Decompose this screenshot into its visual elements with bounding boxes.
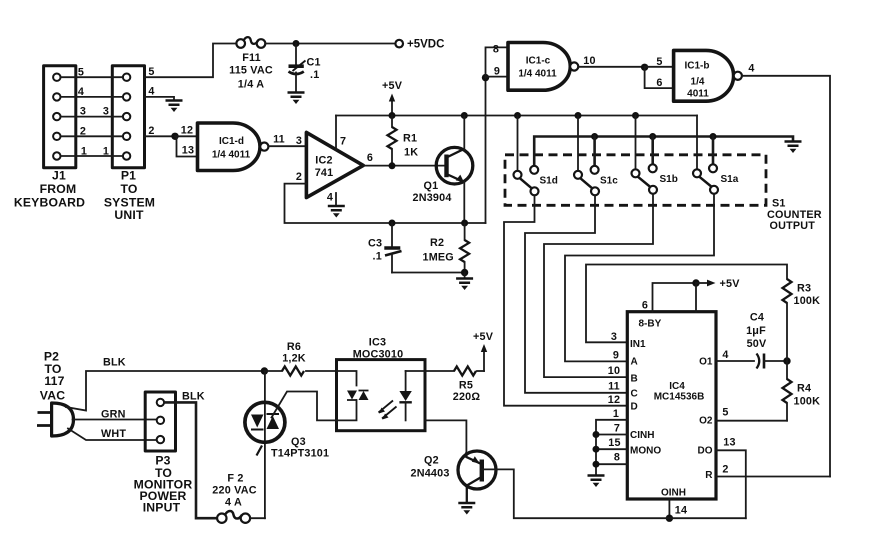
svg-text:S1c: S1c <box>600 176 618 187</box>
wire IC3 to Q2 <box>425 420 466 452</box>
wire J1-P1 row 1 <box>61 146 122 158</box>
wire P1 pin5 to fuse F11 <box>145 44 237 79</box>
wire oscillator node to IC1-c inputs <box>485 78 487 223</box>
connector P1 <box>112 66 144 168</box>
svg-text:13: 13 <box>182 145 194 157</box>
wire P1 pin2 to IC1-d <box>145 125 174 137</box>
fuse F11 <box>229 37 273 90</box>
ground under R2 <box>464 273 466 279</box>
svg-text:IC1-b: IC1-b <box>685 61 710 72</box>
svg-text:KEYBOARD: KEYBOARD <box>14 195 85 209</box>
node C4 R3 R4 <box>783 357 790 364</box>
svg-text:C1: C1 <box>307 57 321 69</box>
label J1 FROM KEYBOARD <box>14 169 85 210</box>
node rail2 S1b <box>649 133 656 140</box>
wire +5V rail <box>336 115 697 117</box>
node IC1-b inputs <box>641 64 648 71</box>
+5V arrow top <box>382 80 403 116</box>
ground under Q2 <box>458 503 475 515</box>
ground IC4 control pins <box>588 476 605 488</box>
svg-text:R2: R2 <box>430 237 444 249</box>
node rail2 S1c <box>591 133 598 140</box>
+5V arrow IC4 <box>696 278 740 290</box>
svg-text:4: 4 <box>748 63 754 75</box>
terminal +5VDC <box>395 39 444 51</box>
svg-text:DO: DO <box>698 446 713 457</box>
svg-text:8: 8 <box>614 452 620 464</box>
wire op-amp pin 7 to +5V rail <box>336 116 346 151</box>
svg-text:1μF: 1μF <box>746 325 766 337</box>
node BLK R6 Q3 <box>261 367 268 374</box>
wire IC4 pin 4 O1 to C4 <box>716 349 754 361</box>
svg-text:IC3: IC3 <box>369 337 386 349</box>
svg-text:S1b: S1b <box>660 174 678 185</box>
svg-text:3: 3 <box>80 106 86 118</box>
svg-text:4011: 4011 <box>687 89 709 100</box>
svg-text:O1: O1 <box>699 357 713 368</box>
svg-text:VAC: VAC <box>40 389 65 403</box>
node rail R1 <box>389 112 396 119</box>
wire IC4 pin 14 OINH <box>669 499 687 518</box>
resistor R5 220 ohm <box>406 367 484 404</box>
svg-text:+5V: +5V <box>720 278 741 290</box>
node tie pin 15 <box>593 446 600 453</box>
svg-text:BLK: BLK <box>182 391 205 403</box>
wire J1-P1 row 2 <box>61 126 122 138</box>
wire Q3 main vertical <box>264 371 266 518</box>
svg-text:5: 5 <box>78 67 84 79</box>
capacitor C4 1uF 50V <box>746 312 787 369</box>
svg-text:P1: P1 <box>121 169 136 183</box>
svg-text:C4: C4 <box>750 312 764 324</box>
node IC1-c inputs <box>482 74 489 81</box>
svg-text:J1: J1 <box>52 169 66 183</box>
svg-text:50V: 50V <box>747 338 767 350</box>
svg-text:1: 1 <box>613 408 619 420</box>
svg-text:115 VAC: 115 VAC <box>229 65 273 77</box>
svg-text:WHT: WHT <box>101 428 126 440</box>
svg-text:.1: .1 <box>310 69 319 81</box>
svg-text:8: 8 <box>493 44 499 56</box>
svg-text:7: 7 <box>614 423 620 435</box>
label P2 TO 117 VAC <box>40 350 65 403</box>
svg-text:11: 11 <box>273 134 285 146</box>
node rail S1b <box>632 112 639 119</box>
ground op-amp pin 4 <box>328 206 345 218</box>
wire ground rail <box>534 137 793 166</box>
wire IC4 pin 6 to +5V <box>642 283 696 312</box>
svg-text:1K: 1K <box>404 147 418 159</box>
resistor R6 1,2K <box>264 341 336 376</box>
svg-text:117: 117 <box>44 374 64 388</box>
svg-text:2: 2 <box>80 126 86 138</box>
fuse F2 220VAC 4A <box>212 473 256 523</box>
wire rail1 to S1c contact <box>577 116 579 171</box>
svg-text:Q1: Q1 <box>424 180 439 192</box>
wire Q2 base to bottom rail <box>482 469 746 518</box>
svg-text:8-BY: 8-BY <box>639 319 662 330</box>
svg-text:15: 15 <box>608 437 620 449</box>
resistor R4 100K <box>783 361 821 421</box>
svg-text:A: A <box>631 357 638 368</box>
svg-text:IC4: IC4 <box>669 381 685 392</box>
wire IC1-d pin 13 <box>177 136 198 156</box>
wire IC1-d out to IC2 pin 3 <box>269 134 307 148</box>
capacitor C1 <box>289 44 321 92</box>
svg-text:9: 9 <box>494 66 500 78</box>
svg-text:2: 2 <box>296 171 302 183</box>
svg-text:220 VAC: 220 VAC <box>212 485 256 497</box>
triac Q3 T14PT3101 <box>245 402 329 459</box>
wire Q3 gate to IC3 <box>272 392 337 421</box>
wire S1d to IC4 pin 12 D <box>504 195 627 406</box>
wire J1-P1 row 3 <box>61 106 122 118</box>
wire feedback op-amp pin 2 <box>285 184 486 223</box>
svg-text:+5V: +5V <box>382 80 403 92</box>
wire IC4 pin 2 R <box>716 464 830 477</box>
ground at rail S1 <box>785 142 802 154</box>
svg-text:10: 10 <box>608 365 620 377</box>
svg-text:2: 2 <box>148 125 154 137</box>
svg-text:6: 6 <box>656 77 662 89</box>
svg-text:IN1: IN1 <box>630 339 646 350</box>
svg-text:R: R <box>705 470 713 481</box>
transistor Q2 2N4403 <box>411 451 497 502</box>
transistor Q1 2N3904 <box>413 147 473 204</box>
svg-text:GRN: GRN <box>101 409 126 421</box>
wire J1-P1 row 4 <box>61 86 122 98</box>
svg-text:MOC3010: MOC3010 <box>353 348 404 360</box>
svg-text:100K: 100K <box>794 295 821 307</box>
wire IC1-d pin 12 <box>175 125 198 137</box>
wire IC1-b output to IC4 pin R <box>742 63 830 477</box>
wire rail1 to S1d contact <box>517 116 519 171</box>
svg-text:3: 3 <box>296 135 302 147</box>
svg-text:7: 7 <box>340 136 346 148</box>
ground under C1 <box>288 93 305 105</box>
wire J1-P1 row 5 <box>61 67 122 79</box>
svg-text:1: 1 <box>103 146 109 158</box>
IC IC4 MC14536B <box>627 312 716 499</box>
wire rail2 to S1a contact <box>712 137 715 165</box>
node rail Q1 collector <box>461 112 468 119</box>
svg-text:Q3: Q3 <box>291 436 306 448</box>
svg-text:OINH: OINH <box>661 488 686 499</box>
wire IN1 to R3 top <box>586 265 787 344</box>
svg-text:IC2: IC2 <box>315 155 332 167</box>
switch S1a <box>693 164 739 194</box>
capacitor C3 .1 <box>368 223 402 273</box>
svg-text:+5VDC: +5VDC <box>407 39 444 51</box>
connector J1 <box>44 66 76 168</box>
op-amp IC2 741 <box>296 132 373 197</box>
svg-text:IC1-c: IC1-c <box>526 56 551 67</box>
wire S1c to IC4 pin 11 C <box>525 195 627 392</box>
svg-text:B: B <box>631 374 638 385</box>
svg-text:R6: R6 <box>287 341 301 353</box>
svg-text:2N3904: 2N3904 <box>413 192 452 204</box>
svg-text:1MEG: 1MEG <box>423 252 454 264</box>
svg-text:4 A: 4 A <box>225 497 242 509</box>
svg-text:14: 14 <box>675 505 687 517</box>
svg-text:4: 4 <box>148 86 154 98</box>
svg-text:IC1-d: IC1-d <box>219 136 244 147</box>
svg-text:BLK: BLK <box>103 357 126 369</box>
svg-text:12: 12 <box>181 125 193 137</box>
svg-text:220Ω: 220Ω <box>453 391 481 403</box>
wire +5V node to IC4 VDD <box>695 283 697 312</box>
svg-text:5: 5 <box>722 407 728 419</box>
node rail S1c <box>575 112 582 119</box>
svg-text:R4: R4 <box>797 383 811 395</box>
switch S1d <box>514 166 558 196</box>
wire IC1-b pin 5 <box>645 56 674 68</box>
wire rail1 to S1b contact <box>635 116 637 169</box>
wire op-amp pin 4 to ground <box>327 192 336 206</box>
wire IC4 pin 5 O2 to R4 <box>716 407 787 421</box>
wire IC1-c pin 9 <box>486 66 509 78</box>
svg-text:10: 10 <box>583 55 595 67</box>
wire GRN P2 to P3 <box>73 409 156 421</box>
svg-text:UNIT: UNIT <box>114 208 144 222</box>
svg-text:1: 1 <box>81 146 87 158</box>
svg-text:3: 3 <box>103 106 109 118</box>
svg-text:.1: .1 <box>373 251 382 263</box>
svg-text:T14PT3101: T14PT3101 <box>271 448 329 460</box>
svg-text:S1d: S1d <box>540 176 558 187</box>
node IC1-d inputs <box>171 133 178 140</box>
switch S1c <box>574 166 618 196</box>
svg-text:C3: C3 <box>368 238 382 250</box>
wire rail2 to S1c contact <box>593 137 596 166</box>
svg-text:4: 4 <box>722 349 728 361</box>
svg-text:1/4 4011: 1/4 4011 <box>212 150 251 161</box>
svg-text:+5V: +5V <box>473 331 494 343</box>
svg-text:CINH: CINH <box>630 430 654 441</box>
node rail2 S1a <box>710 133 717 140</box>
svg-text:2N4403: 2N4403 <box>411 468 450 480</box>
node fuse output <box>293 40 300 47</box>
svg-text:2: 2 <box>722 464 728 476</box>
wire fuse to +5VDC <box>265 43 395 45</box>
node pin 14 bottom <box>666 515 673 522</box>
switch S1b <box>632 164 678 194</box>
svg-text:4: 4 <box>327 192 333 204</box>
node tie pin 7 <box>593 431 600 438</box>
wire F2 to Q3 <box>250 517 265 519</box>
svg-text:COUNTER: COUNTER <box>767 209 822 221</box>
wire S1b to IC4 pin 10 B <box>544 194 653 377</box>
gate IC1-c 1/4 4011 <box>508 43 578 91</box>
svg-text:5: 5 <box>148 66 154 78</box>
gate IC1-b 1/4 4011 <box>674 50 742 101</box>
+5V arrow R5 <box>473 331 494 371</box>
svg-text:INPUT: INPUT <box>143 501 181 515</box>
wire WHT P2 to P3 <box>68 428 156 440</box>
resistor R3 100K <box>783 279 821 361</box>
svg-text:4: 4 <box>78 86 84 98</box>
svg-text:MONO: MONO <box>630 446 661 457</box>
svg-text:13: 13 <box>723 437 735 449</box>
svg-text:R5: R5 <box>459 380 473 392</box>
wire IC4 pins 1 7 15 8 tie <box>596 408 627 475</box>
node feedback C3 <box>389 220 396 227</box>
svg-text:MC14536B: MC14536B <box>654 392 705 403</box>
svg-text:R1: R1 <box>403 133 417 145</box>
label P1 TO SYSTEM UNIT <box>104 169 155 222</box>
svg-text:R3: R3 <box>797 283 811 295</box>
svg-text:D: D <box>631 402 638 413</box>
resistor R1 1K <box>388 116 419 166</box>
svg-text:1/4 A: 1/4 A <box>238 79 264 91</box>
wire IC1-b pin 6 <box>645 67 674 89</box>
svg-text:TO: TO <box>120 182 137 196</box>
connector P3 <box>145 392 175 451</box>
svg-text:9: 9 <box>613 350 619 362</box>
svg-text:6: 6 <box>367 152 373 164</box>
svg-text:3: 3 <box>611 331 617 343</box>
plug P2 <box>37 403 74 436</box>
svg-text:12: 12 <box>608 394 620 406</box>
svg-text:1/4: 1/4 <box>691 77 705 88</box>
wire op-amp out to Q1 base <box>363 165 444 167</box>
wire rail1 to S1a contact <box>696 116 698 169</box>
node R2 bottom <box>461 269 468 276</box>
node feedback Q1 emitter <box>461 220 468 227</box>
svg-text:100K: 100K <box>794 396 821 408</box>
wire IC1-c out to IC1-b <box>578 55 644 67</box>
svg-text:11: 11 <box>608 381 620 393</box>
label P3 TO MONITOR POWER INPUT <box>134 454 193 515</box>
wire Q1 emitter <box>463 182 465 224</box>
dashed box S1 <box>505 155 766 206</box>
svg-text:O2: O2 <box>699 416 713 427</box>
node +5V IC4 <box>692 279 699 286</box>
optocoupler IC3 MOC3010 <box>337 337 426 431</box>
wire IC1-c pin 8 <box>486 44 509 78</box>
ground at P1 pin4 <box>166 101 183 113</box>
wire BLK P2 to R6 <box>66 357 264 411</box>
svg-text:OUTPUT: OUTPUT <box>770 220 816 232</box>
svg-text:C: C <box>631 388 638 399</box>
svg-text:S1a: S1a <box>721 174 739 185</box>
wire rail2 to S1b contact <box>651 137 654 165</box>
svg-text:5: 5 <box>656 56 662 68</box>
label S1 COUNTER OUTPUT <box>767 198 822 233</box>
svg-text:F 2: F 2 <box>227 473 243 485</box>
wire BLK P3 to fuse F2 <box>165 391 217 519</box>
svg-text:741: 741 <box>315 167 334 179</box>
node op-amp output <box>389 162 396 169</box>
svg-text:6: 6 <box>642 300 648 312</box>
gate IC1-d 1/4 4011 <box>198 123 269 171</box>
svg-text:FROM: FROM <box>40 182 77 196</box>
wire P1 pin4 to ground <box>145 86 175 100</box>
svg-text:Q2: Q2 <box>424 455 439 467</box>
svg-text:1,2K: 1,2K <box>282 353 306 365</box>
svg-text:S1: S1 <box>772 198 786 210</box>
wire Q1 collector <box>463 116 465 150</box>
wire IC4 pin 13 DO <box>716 437 746 519</box>
wire S1a to IC4 pin 9 A <box>565 194 714 362</box>
wire C3 bottom to R2 bottom <box>392 272 465 274</box>
resistor R2 1MEG <box>423 223 470 273</box>
node tie pin 8 <box>593 461 600 468</box>
svg-text:1/4 4011: 1/4 4011 <box>518 69 557 80</box>
node rail S1d <box>514 112 521 119</box>
svg-text:F11: F11 <box>242 52 261 64</box>
